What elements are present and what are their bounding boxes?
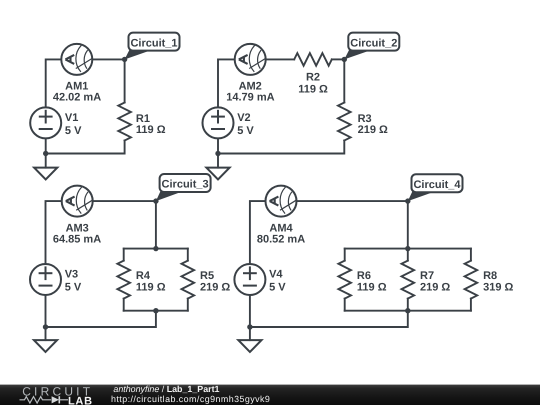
junction parallel top circuit 3 <box>153 246 158 251</box>
junction parallel bottom circuit 4 <box>405 308 410 313</box>
wire V3 bottom to ground <box>45 295 47 340</box>
junction node Circuit_2 <box>342 57 347 62</box>
junction node Circuit_3 <box>153 198 158 203</box>
wire AM3 right to node Circuit_3 <box>93 200 156 202</box>
wire V3 top to AM3 left <box>46 201 62 264</box>
wire R3 bottom to bottom rail <box>218 141 344 154</box>
resistor R4 <box>117 261 130 299</box>
wire R6 top lead <box>344 249 346 261</box>
svg-text:Circuit_4: Circuit_4 <box>413 179 461 191</box>
ammeter AM2 <box>235 44 266 75</box>
wire R7 bottom lead <box>407 299 409 311</box>
ammeter AM1 <box>61 44 92 75</box>
junction V4 bottom rail <box>247 324 252 329</box>
wire bottom bar to rail circuit 4 <box>250 311 408 327</box>
svg-text:http://circuitlab.com/cg9nmh35: http://circuitlab.com/cg9nmh35gyvk9 <box>111 394 270 404</box>
wire R7 top lead <box>407 249 409 261</box>
wire bottom bar to rail circuit 3 <box>46 311 156 327</box>
svg-text:Circuit_1: Circuit_1 <box>130 37 177 49</box>
wire R1 bottom to bottom rail <box>46 141 125 154</box>
svg-text:V4: V4 <box>269 269 283 281</box>
wire V1 bottom to ground <box>45 138 47 167</box>
wire node Circuit_3 down to parallel top bar <box>155 201 157 249</box>
voltage source V4 <box>234 264 265 295</box>
svg-text:V1: V1 <box>65 112 78 124</box>
wire V2 bottom to ground <box>217 138 219 167</box>
logo wire and resistor zigzag <box>20 397 52 403</box>
wire node Circuit_4 down to parallel top bar <box>407 201 409 249</box>
svg-text:R4: R4 <box>136 270 151 282</box>
footer bar <box>0 385 540 405</box>
wire R4 bottom lead <box>123 299 125 311</box>
junction V3 bottom rail <box>43 324 48 329</box>
wire AM4 right to node Circuit_4 <box>297 200 408 202</box>
svg-text:R6: R6 <box>357 270 371 282</box>
wire AM1 right to node Circuit_1 <box>92 58 124 60</box>
svg-text:V3: V3 <box>65 269 78 281</box>
node Circuit_1 callout <box>125 33 180 60</box>
svg-text:14.79 mA: 14.79 mA <box>226 92 274 104</box>
ground circuit 3 <box>34 340 57 352</box>
wire parallel top bar circuit 3 <box>124 248 188 250</box>
ground circuit 1 <box>34 168 57 180</box>
wire parallel top bar circuit 4 <box>345 248 471 250</box>
voltage source V1 <box>30 107 61 138</box>
logo diode <box>52 396 59 403</box>
wire R2 right to node Circuit_2 <box>332 58 345 60</box>
resistor R7 <box>402 261 415 299</box>
node Circuit_4 callout <box>408 174 463 201</box>
svg-text:5 V: 5 V <box>65 125 82 137</box>
resistor R8 <box>465 261 478 299</box>
svg-text:219 Ω: 219 Ω <box>420 281 450 293</box>
junction V2 bottom rail <box>215 151 220 156</box>
resistor R2 <box>294 53 332 66</box>
wire R8 top lead <box>470 249 472 261</box>
wire V4 bottom to ground <box>249 295 251 340</box>
svg-text:319 Ω: 319 Ω <box>483 281 513 293</box>
svg-text:5 V: 5 V <box>65 282 82 294</box>
svg-text:64.85 mA: 64.85 mA <box>53 233 101 245</box>
node Circuit_3 callout <box>156 174 211 201</box>
ground circuit 2 <box>206 168 229 180</box>
wire parallel bottom bar circuit 3 <box>124 310 188 312</box>
wire R5 top lead <box>187 249 189 261</box>
voltage source V3 <box>30 264 61 295</box>
svg-text:119 Ω: 119 Ω <box>298 84 328 96</box>
wire node Circuit_1 down to R1 <box>124 59 126 102</box>
junction node Circuit_4 <box>405 198 410 203</box>
svg-text:R5: R5 <box>200 270 214 282</box>
resistor R3 <box>338 103 351 141</box>
junction node Circuit_1 <box>122 57 127 62</box>
ammeter AM4 <box>266 186 297 217</box>
svg-text:R2: R2 <box>306 72 320 84</box>
wire parallel bottom bar circuit 4 <box>345 310 471 312</box>
resistor R6 <box>338 261 351 299</box>
svg-text:119 Ω: 119 Ω <box>136 124 166 136</box>
svg-text:R8: R8 <box>483 270 497 282</box>
wire R4 top lead <box>123 249 125 261</box>
junction V1 bottom rail <box>43 151 48 156</box>
node Circuit_2 callout <box>344 33 399 60</box>
svg-text:219 Ω: 219 Ω <box>200 281 230 293</box>
ground circuit 4 <box>238 340 261 352</box>
wire R6 bottom lead <box>344 299 346 311</box>
svg-text:Circuit_3: Circuit_3 <box>162 179 209 191</box>
svg-text:5 V: 5 V <box>269 282 286 294</box>
resistor R1 <box>118 103 131 141</box>
ammeter AM3 <box>62 186 93 217</box>
wire V2 top to AM2 left <box>218 59 235 107</box>
wire R5 bottom lead <box>187 299 189 311</box>
svg-text:anthonyfine / Lab_1_Part1: anthonyfine / Lab_1_Part1 <box>113 384 219 394</box>
resistor R5 <box>182 261 195 299</box>
wire AM2 right to R2 <box>266 58 295 60</box>
svg-text:119 Ω: 119 Ω <box>357 281 387 293</box>
wire V1 top to AM1 left <box>46 59 62 107</box>
svg-text:Circuit_2: Circuit_2 <box>350 37 397 49</box>
svg-text:5 V: 5 V <box>237 125 254 137</box>
svg-text:V2: V2 <box>237 112 250 124</box>
svg-text:42.02 mA: 42.02 mA <box>53 92 101 104</box>
wire R8 bottom lead <box>470 299 472 311</box>
junction parallel bottom circuit 3 <box>153 308 158 313</box>
wire node Circuit_2 down to R3 <box>343 59 345 102</box>
voltage source V2 <box>203 107 234 138</box>
junction parallel top circuit 4 <box>405 246 410 251</box>
wire V4 top to AM4 left <box>250 201 266 264</box>
svg-text:219 Ω: 219 Ω <box>358 124 388 136</box>
svg-text:R7: R7 <box>420 270 434 282</box>
svg-text:119 Ω: 119 Ω <box>136 281 166 293</box>
svg-text:LAB: LAB <box>68 396 93 405</box>
svg-text:80.52 mA: 80.52 mA <box>257 233 305 245</box>
